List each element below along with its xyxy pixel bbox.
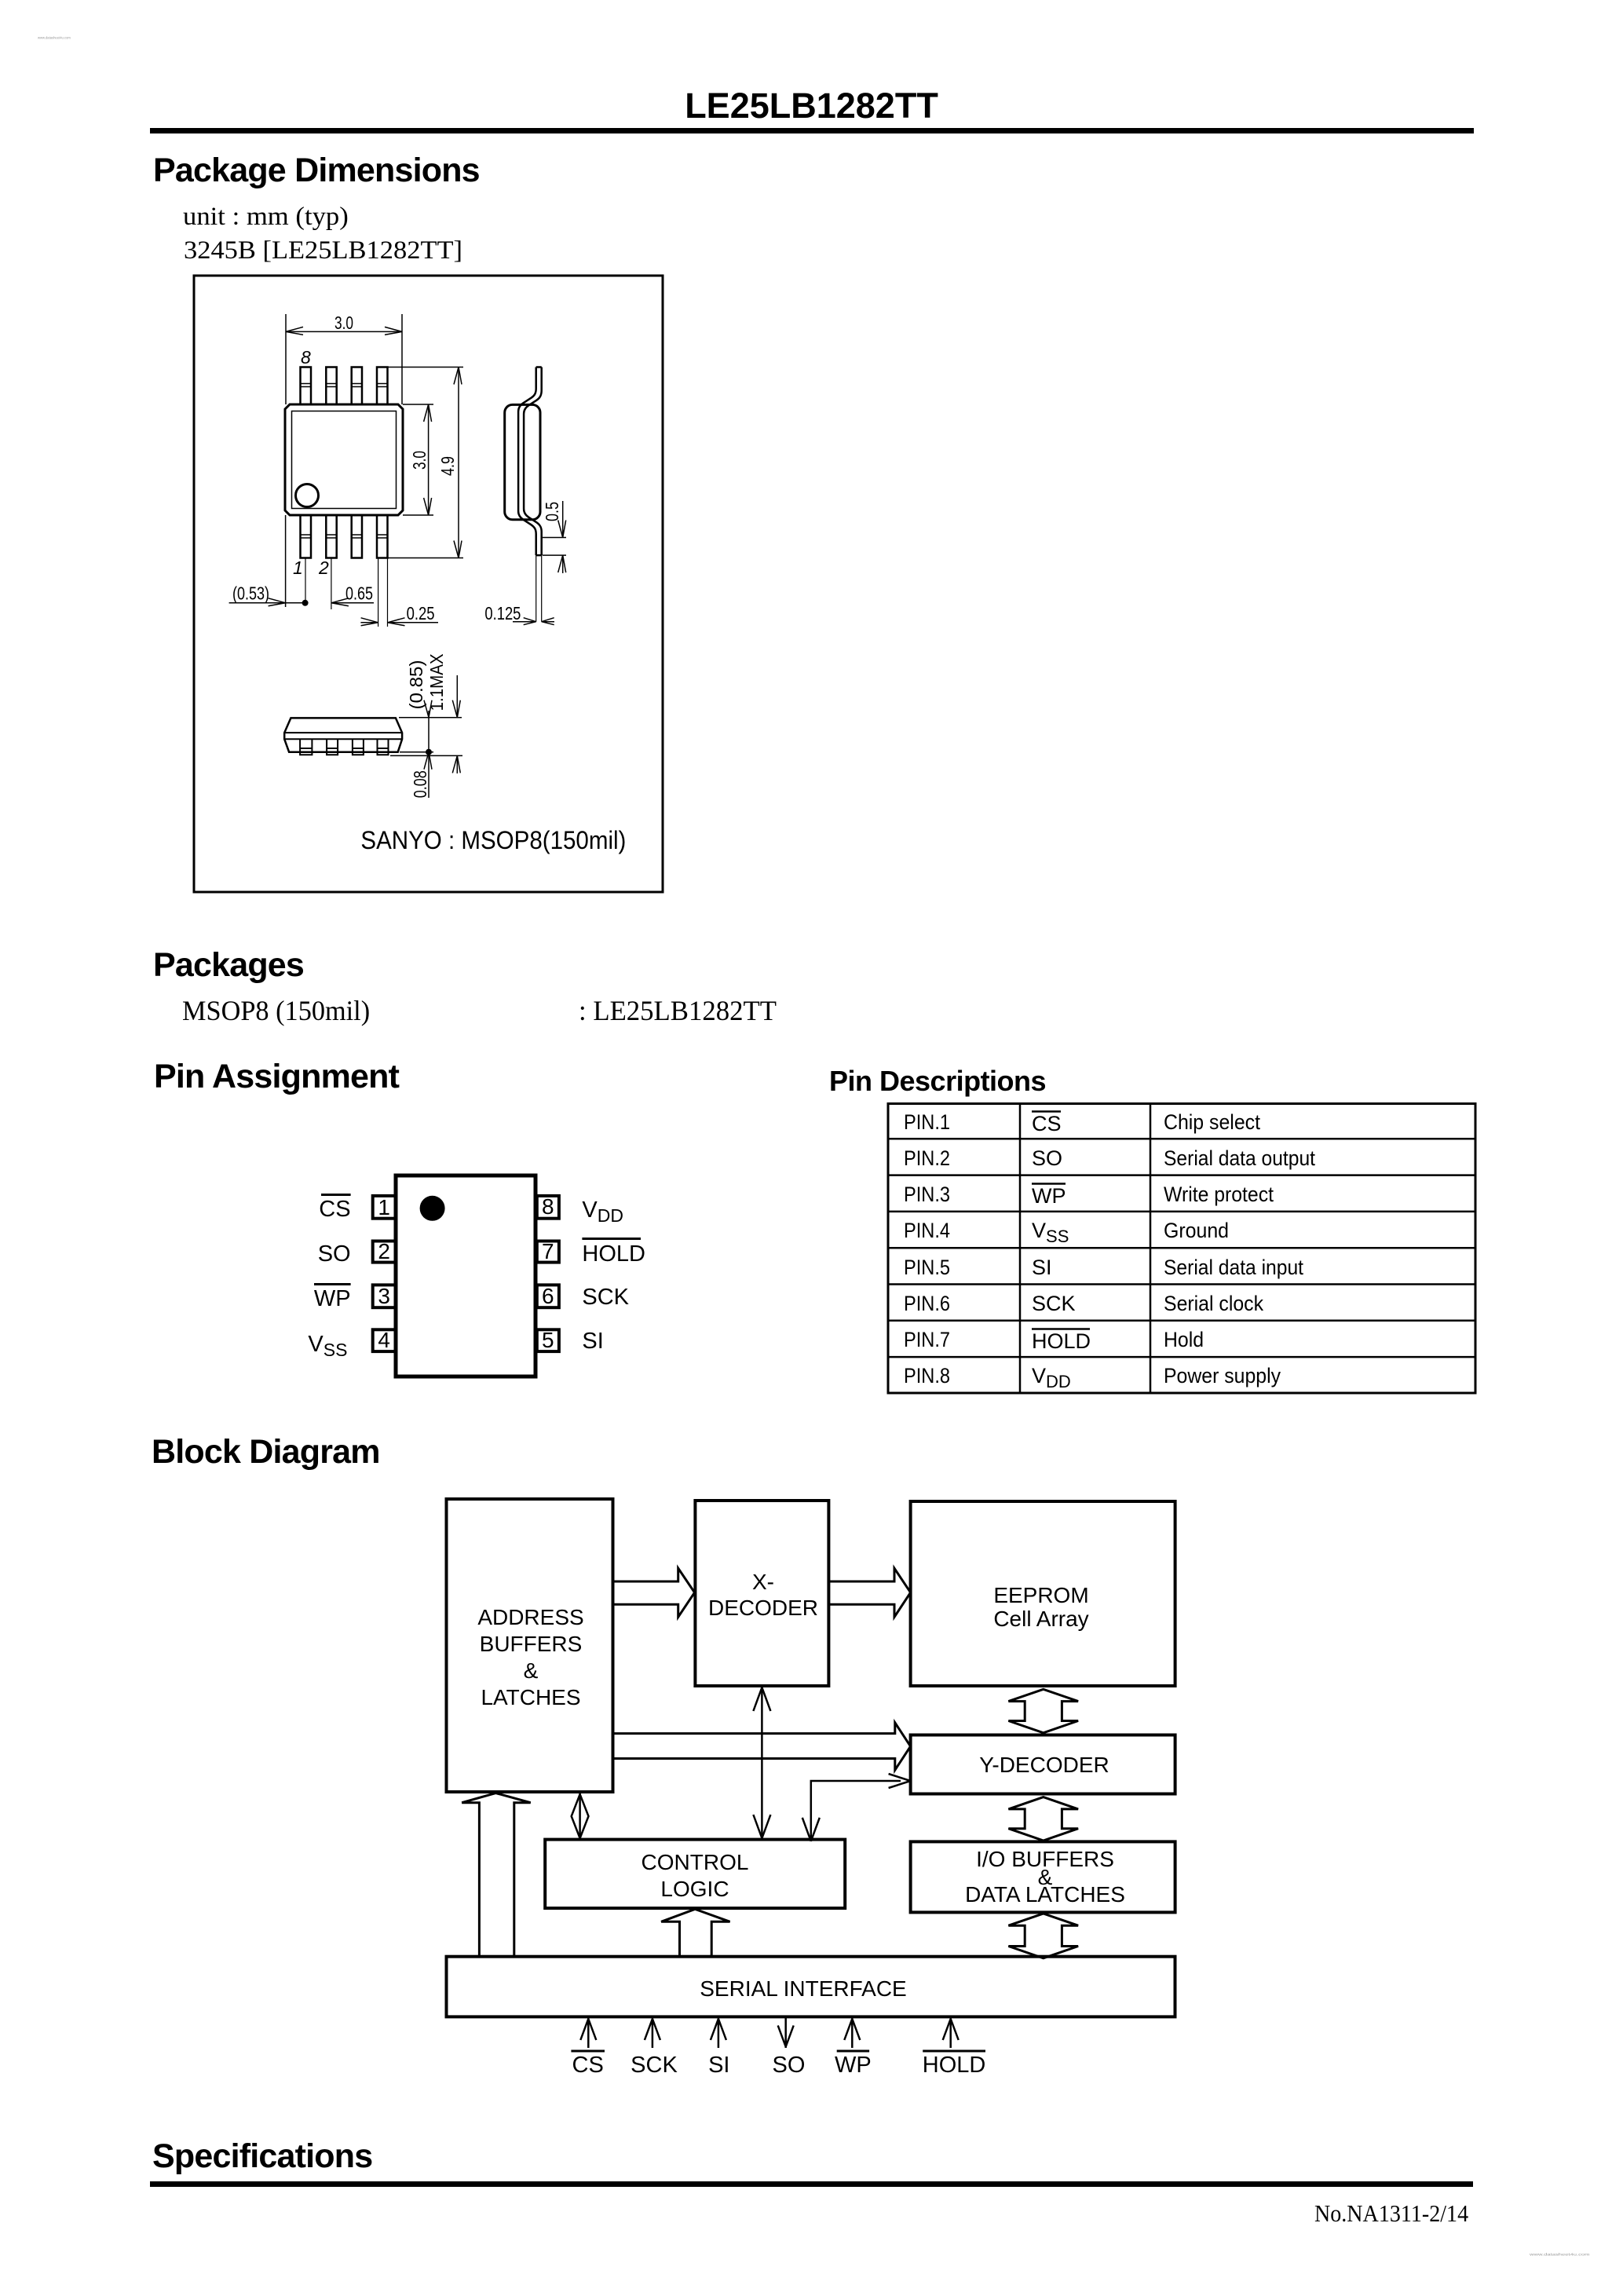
svg-text:PIN.4: PIN.4	[904, 1219, 950, 1242]
svg-text:Serial data output: Serial data output	[1164, 1146, 1315, 1170]
svg-text:Cell Array: Cell Array	[993, 1607, 1088, 1631]
block: address buffers & latches	[447, 1499, 613, 1792]
svg-text:&: &	[524, 1658, 539, 1683]
bottom signal arrows	[580, 2018, 958, 2048]
svg-text:PIN.6: PIN.6	[904, 1292, 950, 1315]
thin arrow: control logic <-> y-decoder	[811, 1781, 901, 1841]
svg-text:CS: CS	[1032, 1112, 1062, 1135]
svg-text:SANYO : MSOP8(150mil): SANYO : MSOP8(150mil)	[360, 826, 626, 854]
svg-text:DATA LATCHES: DATA LATCHES	[965, 1882, 1125, 1907]
block diagram	[440, 1492, 1186, 2089]
svg-text:LOGIC: LOGIC	[660, 1877, 729, 1901]
title rule	[150, 128, 1474, 133]
big up arrow: serial -> address	[462, 1793, 531, 1957]
svg-text:0.125: 0.125	[484, 603, 521, 623]
IC body	[396, 1175, 536, 1377]
svg-text:SI: SI	[708, 2053, 729, 2078]
svg-text:PIN.5: PIN.5	[904, 1256, 950, 1279]
svg-text:PIN.7: PIN.7	[904, 1328, 950, 1351]
HOLD overline (pin label)	[582, 1238, 641, 1240]
svg-text:SI: SI	[582, 1329, 603, 1354]
tiny watermark top-left	[38, 36, 71, 40]
svg-text:HOLD: HOLD	[923, 2053, 986, 2078]
svg-text:8: 8	[301, 347, 311, 367]
front view dims	[390, 718, 462, 756]
0.65 dim	[331, 602, 374, 604]
svg-text:DECODER: DECODER	[708, 1596, 818, 1620]
svg-text:3.0: 3.0	[409, 451, 430, 470]
pin1 dot	[420, 1196, 445, 1221]
svg-text:VDD: VDD	[582, 1197, 623, 1226]
svg-text:2: 2	[318, 558, 329, 578]
svg-text:VSS: VSS	[1032, 1219, 1069, 1246]
svg-text:PIN.8: PIN.8	[904, 1364, 950, 1387]
Specifications heading	[152, 2137, 372, 2176]
svg-text:Serial data input: Serial data input	[1164, 1256, 1303, 1279]
svg-text:Chip select: Chip select	[1164, 1110, 1260, 1134]
svg-text:Write protect: Write protect	[1164, 1183, 1274, 1206]
svg-text:8: 8	[542, 1194, 554, 1219]
CS / WP / HOLD overlines (table)	[1032, 1112, 1090, 1329]
svg-text:0.08: 0.08	[410, 770, 430, 798]
top pins	[301, 367, 388, 405]
svg-text:4.9: 4.9	[437, 456, 458, 476]
right dim 3.0 (body height)	[403, 404, 433, 515]
3245B line	[184, 236, 462, 265]
top-view dim line 3.0	[286, 331, 402, 332]
svg-text:(0.53): (0.53)	[232, 583, 269, 604]
block: y-decoder	[911, 1735, 1175, 1794]
0.125 dim (lead thickness)	[536, 555, 542, 622]
side view body	[505, 404, 540, 519]
svg-text:2: 2	[378, 1239, 390, 1263]
svg-text:Power supply: Power supply	[1164, 1364, 1281, 1387]
svg-text:WP: WP	[1032, 1184, 1066, 1208]
svg-text:VDD: VDD	[1032, 1364, 1071, 1391]
col 2: signal names	[1032, 1112, 1091, 1391]
page title	[0, 86, 1623, 126]
svg-text:(0.85): (0.85)	[406, 660, 426, 710]
unit line	[183, 203, 349, 232]
side view lead (left outline)	[518, 367, 536, 556]
svg-text:Serial clock: Serial clock	[1164, 1292, 1263, 1315]
up arrow: serial -> control logic	[661, 1909, 730, 1956]
svg-text:1: 1	[378, 1195, 390, 1219]
block: x-decoder	[695, 1501, 828, 1686]
svg-text:1.1MAX: 1.1MAX	[426, 653, 447, 711]
svg-text:SCK: SCK	[1032, 1292, 1076, 1315]
left signal labels	[314, 1197, 351, 1311]
Pin Assignment heading	[154, 1058, 399, 1096]
bottom rule	[150, 2181, 1473, 2187]
arrow: address -> y-decoder	[613, 1723, 911, 1770]
svg-text:CS: CS	[319, 1197, 350, 1222]
svg-text:0.5: 0.5	[542, 502, 562, 521]
col 3: descriptions	[1164, 1110, 1315, 1387]
block: serial interface	[447, 1957, 1175, 2017]
svg-text:SO: SO	[773, 2053, 806, 2078]
Pin Descriptions heading	[829, 1065, 1046, 1098]
front view body	[284, 718, 402, 751]
svg-text:WP: WP	[835, 2053, 872, 2078]
svg-text:VSS: VSS	[308, 1332, 347, 1360]
svg-text:0.25: 0.25	[407, 603, 435, 623]
bottom signal labels	[572, 2053, 986, 2078]
Block Diagram heading	[152, 1433, 380, 1472]
right dim 4.9 (total height)	[388, 367, 464, 558]
double arrow: y-decoder <-> i/o buffers	[1008, 1797, 1078, 1841]
CS and WP overlines (pin labels)	[314, 1195, 351, 1285]
svg-text:SI: SI	[1032, 1256, 1052, 1279]
pin assignment diagram	[298, 1162, 660, 1398]
table grid	[888, 1104, 1475, 1394]
svg-text:BUFFERS: BUFFERS	[480, 1632, 583, 1656]
svg-text:PIN.1: PIN.1	[904, 1110, 950, 1134]
tiny watermark bottom-right	[1530, 2252, 1589, 2257]
svg-text:SERIAL INTERFACE: SERIAL INTERFACE	[700, 1976, 906, 2001]
arrow: x-decoder -> eeprom	[828, 1568, 910, 1617]
svg-text:Ground: Ground	[1164, 1219, 1229, 1242]
package drawing	[192, 273, 666, 895]
IC body top view	[285, 404, 403, 515]
svg-text:EEPROM: EEPROM	[993, 1583, 1088, 1607]
block: eeprom cell array	[911, 1501, 1175, 1686]
svg-text:WP: WP	[314, 1286, 351, 1311]
svg-text:6: 6	[542, 1284, 554, 1308]
svg-text:SCK: SCK	[582, 1285, 629, 1310]
svg-text:HOLD: HOLD	[582, 1241, 645, 1267]
svg-text:X-: X-	[752, 1570, 774, 1594]
svg-text:4: 4	[378, 1328, 390, 1352]
svg-text:3: 3	[378, 1284, 390, 1308]
svg-text:3.0: 3.0	[334, 313, 353, 333]
pin1 index circle	[296, 484, 319, 507]
block: control logic	[545, 1840, 845, 1909]
arrow: address -> x-decoder	[613, 1568, 695, 1617]
svg-text:PIN.2: PIN.2	[904, 1146, 950, 1170]
top-view dim 3.0 extension lines	[286, 314, 402, 404]
svg-text:0.65: 0.65	[345, 583, 373, 604]
svg-text:Hold: Hold	[1164, 1328, 1204, 1351]
svg-text:SCK: SCK	[631, 2053, 678, 2078]
pin numbers	[378, 1194, 554, 1352]
side view lead (right outline)	[524, 367, 542, 556]
0.25 dim (pin width)	[378, 558, 388, 627]
(0.53) dim	[285, 515, 287, 607]
svg-text:SO: SO	[318, 1241, 351, 1267]
double arrow: eeprom <-> y-decoder	[1008, 1689, 1078, 1733]
svg-text:CS: CS	[572, 2053, 604, 2078]
svg-text:SO: SO	[1032, 1146, 1062, 1170]
Package Dimensions heading	[153, 152, 480, 190]
0.5 dim (foot length)	[543, 538, 566, 556]
left pin boxes	[373, 1196, 559, 1351]
col 1: pin numbers	[904, 1110, 950, 1387]
CS / WP / HOLD overlines (bottom labels)	[571, 2050, 985, 2053]
diamond arrow: address <-> control logic	[579, 1793, 581, 1839]
footer page number	[1314, 2199, 1468, 2228]
right signal labels	[582, 1197, 645, 1354]
thin arrow: x-decoder <-> control logic	[761, 1686, 763, 1839]
block: i/o buffers & data latches	[911, 1841, 1175, 1912]
svg-text:ADDRESS: ADDRESS	[477, 1605, 583, 1629]
svg-text:1: 1	[293, 558, 303, 578]
pin descriptions table	[886, 1102, 1479, 1396]
svg-text:CONTROL: CONTROL	[642, 1850, 749, 1874]
svg-text:HOLD: HOLD	[1032, 1329, 1091, 1353]
svg-text:7: 7	[542, 1239, 554, 1263]
svg-text:5: 5	[542, 1328, 554, 1352]
svg-text:LATCHES: LATCHES	[481, 1685, 580, 1709]
drawing frame	[194, 276, 663, 892]
Packages heading	[153, 946, 304, 985]
double arrow: i/o buffers <-> serial	[1008, 1914, 1078, 1958]
front view pins	[300, 739, 388, 755]
bottom pins	[301, 515, 388, 558]
svg-text:Y-DECODER: Y-DECODER	[979, 1753, 1109, 1777]
svg-text:PIN.3: PIN.3	[904, 1183, 950, 1206]
